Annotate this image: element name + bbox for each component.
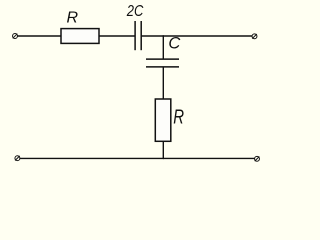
wire node B to bottom-right terminal: [163, 157, 254, 159]
junction node A (top wire / shunt branch): [163, 35, 165, 37]
terminal T3 bottom-left: [15, 156, 20, 161]
svg-text:R: R: [67, 10, 79, 27]
svg-text:R: R: [173, 107, 184, 129]
svg-text:C: C: [168, 35, 180, 53]
wire 2C to node A: [141, 35, 163, 37]
wire R2 to bottom wire: [162, 141, 164, 159]
capacitor 2C (series, vertical plates): [135, 21, 141, 50]
wire C to R2: [162, 67, 164, 99]
wire top-left terminal to R: [17, 35, 61, 37]
resistor R2 (vertical): [155, 99, 171, 141]
svg-text:2C: 2C: [126, 3, 144, 20]
terminal T1 top-left: [13, 34, 18, 39]
wire node A down to C: [162, 35, 164, 58]
terminal T2 top-right: [252, 34, 257, 39]
terminal T4 bottom-right: [255, 156, 260, 161]
junction node B (bottom wire / shunt branch): [163, 158, 165, 160]
wire node A to top-right terminal: [163, 35, 252, 37]
wire R to 2C: [99, 35, 135, 37]
capacitor C (shunt, horizontal plates): [146, 59, 179, 67]
wire bottom-left terminal to node B: [20, 157, 164, 159]
resistor R1 (top, horizontal): [61, 29, 99, 44]
